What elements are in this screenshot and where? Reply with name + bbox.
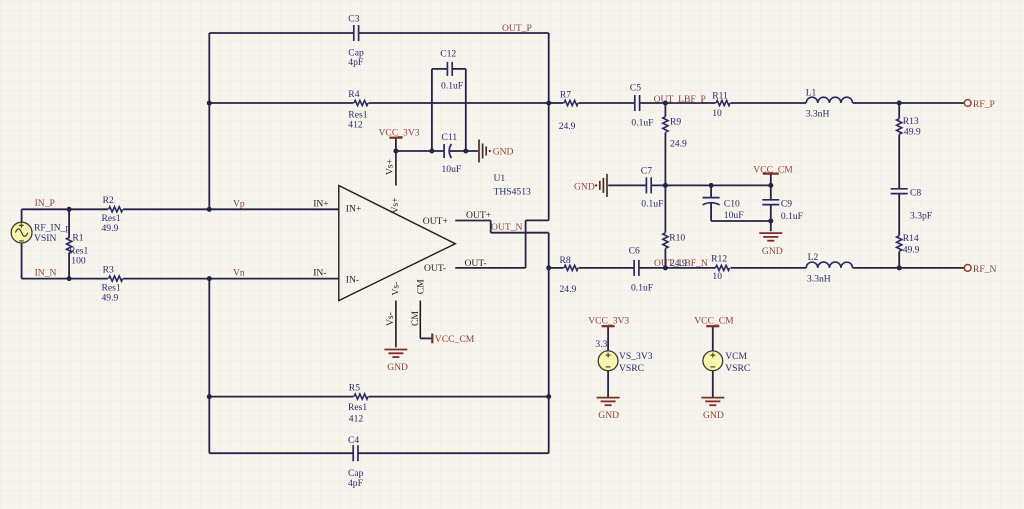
wire L2 to RF_N port: [853, 267, 965, 269]
svg-text:C5: C5: [630, 82, 641, 93]
wire source negative lead: [21, 243, 23, 279]
svg-text:R13: R13: [903, 116, 919, 127]
svg-text:412: 412: [348, 120, 363, 131]
resistor R3: [109, 276, 123, 281]
voltage source RF_IN_p VSIN: [11, 222, 32, 243]
label R5 Res1 412: [348, 383, 367, 425]
wire L1 to RF_P port: [853, 102, 965, 104]
svg-text:GND: GND: [387, 362, 408, 373]
label R1 Res1 100: [69, 233, 88, 267]
wire OUT+ crossover vertical: [490, 221, 492, 233]
svg-text:24.9: 24.9: [559, 121, 576, 132]
svg-text:R3: R3: [103, 264, 114, 275]
label R7 24.9: [559, 90, 576, 132]
svg-text:100: 100: [71, 255, 86, 266]
svg-text:IN-: IN-: [313, 268, 326, 279]
node Vs+: [393, 149, 398, 154]
power port VCC_3V3 at VS_3V3 source: [602, 325, 615, 327]
svg-text:Vs-: Vs-: [385, 312, 396, 326]
svg-text:IN+: IN+: [346, 203, 362, 214]
wire R4 feedback row left: [209, 102, 353, 104]
wire OUT+ pin stub: [455, 220, 490, 222]
capacitor C6: [634, 259, 638, 277]
svg-text:Vs+: Vs+: [390, 197, 401, 213]
label C8 3.3pF: [910, 187, 932, 221]
svg-text:U1: U1: [494, 173, 506, 184]
label C4 Cap 4pF: [348, 435, 364, 489]
svg-text:GND: GND: [762, 246, 783, 257]
label C12 0.1uF: [440, 48, 463, 91]
wire R7 to C5 to R11 segment: [579, 102, 716, 104]
voltage source VCM VSRC: [703, 351, 723, 371]
svg-text:R14: R14: [903, 233, 919, 244]
svg-text:10uF: 10uF: [724, 210, 744, 221]
power port VCC_CM at C9: [763, 173, 779, 175]
node C11 right: [463, 149, 468, 154]
inductor L1: [806, 97, 852, 103]
label R4 Res1 412: [348, 89, 367, 131]
port RF_N: [964, 265, 971, 272]
svg-text:10uF: 10uF: [442, 164, 462, 175]
capacitor C11 polarized: [444, 143, 449, 159]
svg-text:CM: CM: [416, 279, 427, 294]
svg-text:0.1uF: 0.1uF: [631, 118, 653, 129]
svg-text:49.9: 49.9: [904, 127, 921, 138]
svg-text:3.3: 3.3: [595, 339, 607, 350]
wire Vp row from R2 to IN+ pin: [123, 208, 339, 210]
node OUT_P/R7: [546, 101, 551, 106]
svg-text:R8: R8: [560, 255, 571, 266]
svg-text:10: 10: [712, 108, 722, 119]
wire OUT_N bus vertical down to C4 row: [548, 233, 550, 454]
wire C12 top row: [432, 68, 466, 70]
wire R1 upper lead: [68, 209, 70, 238]
svg-text:C10: C10: [724, 199, 740, 210]
node IN_P/R1: [67, 207, 72, 212]
resistor R14: [897, 236, 902, 252]
svg-text:24.9: 24.9: [670, 258, 687, 269]
wire IN_N row from source to R3: [22, 278, 109, 280]
svg-text:412: 412: [349, 414, 364, 425]
capacitor C9: [761, 200, 780, 204]
svg-text:RF_N: RF_N: [973, 264, 997, 275]
wire R8 to C6 to R12 segment: [579, 267, 716, 269]
wire R12 to L2 segment: [731, 267, 807, 269]
capacitor C7: [647, 176, 651, 194]
svg-text:49.9: 49.9: [102, 292, 119, 303]
wire R1 lower lead: [68, 253, 70, 279]
svg-text:VCM: VCM: [725, 351, 747, 362]
power port VCC_CM at VCM source: [706, 325, 719, 327]
wire IN_P row from source to R2: [22, 208, 109, 210]
ground GND earth at C9: [759, 233, 782, 241]
resistor R13: [897, 119, 902, 135]
node L1/R13: [897, 101, 902, 106]
label RF_IN_p VSIN: [34, 222, 70, 244]
resistor R2: [109, 207, 123, 212]
label C5 0.1uF: [630, 82, 654, 128]
node R9 top: [663, 101, 668, 106]
wire R5 feedback row left: [209, 396, 353, 398]
wire top feedback row OUT_P to C3: [209, 32, 548, 34]
svg-text:GND: GND: [574, 182, 595, 193]
label U1 designator: [494, 173, 532, 198]
svg-text:0.1uF: 0.1uF: [641, 199, 663, 210]
op-amp U1 pin Vs- bottom: [395, 301, 397, 348]
svg-text:VCC_CM: VCC_CM: [435, 334, 475, 345]
svg-text:Vs+: Vs+: [385, 159, 396, 175]
label R11 10: [712, 91, 728, 120]
label VS_3V3 VSRC 3.3: [595, 339, 652, 374]
svg-text:Res1: Res1: [348, 402, 367, 413]
inductor L2: [806, 262, 852, 268]
svg-text:OUT+: OUT+: [466, 210, 491, 221]
capacitor C4: [354, 444, 358, 462]
wire R9 R10 vertical: [664, 103, 666, 117]
op-amp U1 pin Vs+ top: [395, 151, 397, 186]
label L1 3.3nH: [806, 87, 830, 119]
resistor R8: [564, 265, 578, 270]
svg-text:GND: GND: [493, 147, 514, 158]
wire left feedback vertical lower (Vn to R5/C4): [208, 279, 210, 454]
wire OUT- pin column vertical: [525, 220, 527, 268]
svg-text:10: 10: [712, 271, 722, 282]
svg-text:R4: R4: [348, 89, 359, 100]
wire R4 feedback row right: [369, 102, 549, 104]
svg-text:R2: R2: [103, 195, 114, 206]
label R8 24.9: [560, 255, 577, 295]
svg-text:C3: C3: [348, 14, 359, 25]
svg-text:C9: C9: [781, 199, 792, 210]
wire R8 row from bus: [549, 267, 564, 269]
label L2 3.3nH: [807, 252, 831, 284]
wire GND to C7 row to VCC_CM: [608, 184, 771, 186]
node OUT_N/R8: [546, 265, 551, 270]
svg-text:CM: CM: [410, 311, 421, 326]
ground GND earth at VCM source: [701, 398, 724, 406]
wire R11 to L1 segment: [731, 102, 807, 104]
svg-text:C4: C4: [348, 435, 359, 446]
ground GND sideways at C11: [479, 140, 491, 163]
wire C9 gnd stub: [770, 221, 772, 231]
wire VCM source leads: [712, 326, 714, 351]
wire OUT_P turn to OUT- pin column: [526, 219, 549, 221]
resistor R9: [663, 117, 668, 133]
ground GND earth at Vs- pin: [384, 350, 407, 358]
wire source positive lead: [21, 209, 23, 222]
port RF_P: [964, 100, 971, 107]
wire R13 C8 R14 vertical: [898, 103, 900, 119]
voltage source VS_3V3 VSRC: [598, 351, 618, 371]
svg-text:VS_3V3: VS_3V3: [619, 351, 653, 362]
ground GND earth at VS_3V3 source: [597, 398, 620, 406]
wire C12 left leg: [431, 69, 433, 151]
wire C4 feedback row: [209, 452, 548, 454]
label C11 10uF: [442, 132, 462, 175]
svg-text:3.3nH: 3.3nH: [807, 273, 831, 284]
svg-text:OUT_LBF_P: OUT_LBF_P: [654, 94, 706, 105]
svg-text:24.9: 24.9: [560, 284, 577, 295]
node C10 top: [709, 183, 714, 188]
svg-text:Vn: Vn: [233, 268, 245, 279]
wire OUT_N crossover horizontal: [491, 232, 549, 234]
op-amp U1 triangle body: [339, 186, 456, 301]
wire C9 branch vertical: [770, 174, 772, 221]
power port VCC_CM at CM pin: [431, 334, 433, 344]
wire Vn row from R3 to IN- pin: [123, 278, 339, 280]
svg-text:4pF: 4pF: [348, 478, 363, 489]
node R5 left: [207, 394, 212, 399]
wire left feedback vertical upper (Vp to C3/R4): [208, 33, 210, 209]
svg-text:R12: R12: [711, 253, 727, 264]
svg-text:C12: C12: [440, 48, 456, 59]
svg-text:IN_P: IN_P: [35, 198, 55, 209]
label R13 49.9: [903, 116, 921, 138]
svg-text:4pF: 4pF: [348, 57, 363, 68]
label R3 Res1 49.9: [102, 264, 121, 303]
node Vp: [207, 207, 212, 212]
capacitor C3: [354, 24, 358, 42]
svg-text:OUT_P: OUT_P: [502, 23, 532, 34]
node R4 left: [207, 101, 212, 106]
resistor R1: [67, 238, 72, 254]
resistor R7: [564, 100, 578, 105]
label R14 49.9: [903, 233, 920, 256]
label R10 24.9: [669, 233, 685, 244]
svg-text:IN+: IN+: [313, 198, 329, 209]
svg-text:0.1uF: 0.1uF: [781, 211, 803, 222]
capacitor C12: [448, 61, 452, 77]
capacitor C8: [890, 189, 909, 193]
svg-text:OUT+: OUT+: [423, 216, 448, 227]
svg-text:VSRC: VSRC: [725, 363, 750, 374]
node Vn: [207, 276, 212, 281]
svg-text:L2: L2: [808, 252, 819, 263]
svg-text:R9: R9: [670, 116, 681, 127]
resistor R4: [354, 100, 368, 105]
label R12 10: [711, 253, 727, 282]
ground GND sideways at C7: [595, 174, 607, 197]
wire OUT_P bus vertical from C3 row down: [548, 33, 550, 220]
wire C11 bypass row: [396, 150, 478, 152]
label C3 Cap 4pF: [348, 14, 364, 68]
resistor R12: [716, 265, 730, 270]
wire OUT- row to column: [455, 267, 525, 269]
node OUT_LBF_N/R10: [663, 265, 668, 270]
node C9 bottom: [768, 219, 773, 224]
svg-text:R10: R10: [669, 233, 685, 244]
svg-text:0.1uF: 0.1uF: [441, 80, 463, 91]
wire R7 row from bus: [549, 102, 564, 104]
svg-text:OUT_N: OUT_N: [491, 222, 523, 233]
resistor R11: [716, 100, 730, 105]
wire C10 branch vertical: [710, 185, 712, 221]
svg-text:49.9: 49.9: [903, 245, 920, 256]
node RF_N/R14: [897, 265, 902, 270]
label R2 Res1 49.9: [102, 195, 121, 234]
capacitor C5: [635, 94, 639, 112]
svg-text:VCC_CM: VCC_CM: [753, 164, 793, 175]
svg-text:C7: C7: [641, 166, 652, 177]
svg-text:R5: R5: [349, 383, 360, 394]
power port VCC_3V3 at op-amp: [389, 137, 402, 139]
svg-text:C11: C11: [442, 132, 458, 143]
node VCC_CM/C9: [768, 183, 773, 188]
op-amp U1 pin CM bottom: [419, 301, 421, 339]
node C7/R9: [663, 183, 668, 188]
svg-text:49.9: 49.9: [102, 223, 119, 234]
wire C10 to C9 bottom row: [711, 220, 771, 222]
wire R5 feedback row right: [369, 396, 549, 398]
svg-text:R7: R7: [560, 90, 571, 101]
svg-text:IN-: IN-: [346, 275, 359, 286]
svg-text:Vp: Vp: [233, 198, 245, 209]
svg-text:RF_P: RF_P: [973, 99, 995, 110]
label C10 10uF: [724, 199, 744, 222]
svg-text:RF_IN_p: RF_IN_p: [34, 222, 70, 233]
node IN_N/R1: [67, 276, 72, 281]
svg-text:3.3nH: 3.3nH: [806, 109, 830, 120]
svg-text:C6: C6: [629, 246, 640, 257]
svg-text:VSRC: VSRC: [619, 363, 644, 374]
svg-text:VCC_3V3: VCC_3V3: [588, 316, 629, 327]
capacitor C10 polarized: [702, 198, 721, 203]
svg-text:0.1uF: 0.1uF: [631, 283, 653, 294]
svg-text:24.9: 24.9: [670, 139, 687, 150]
svg-text:THS4513: THS4513: [494, 187, 532, 198]
svg-text:R11: R11: [712, 91, 728, 102]
svg-text:VCC_3V3: VCC_3V3: [379, 128, 420, 139]
label C9 0.1uF: [781, 199, 803, 223]
svg-text:R1: R1: [72, 233, 83, 244]
node C11 left: [429, 149, 434, 154]
wire VS_3V3 source leads: [607, 326, 609, 351]
label C7 0.1uF: [641, 166, 664, 210]
svg-text:VCC_CM: VCC_CM: [694, 316, 734, 327]
wire C12 right leg: [465, 69, 467, 151]
svg-text:GND: GND: [703, 410, 724, 421]
svg-text:VSIN: VSIN: [34, 233, 56, 244]
wire CM pin to VCC_CM port: [420, 337, 431, 339]
label C6 0.1uF: [629, 246, 654, 294]
label VCM VSRC: [725, 351, 750, 374]
node R5 right: [546, 394, 551, 399]
label R9 24.9: [670, 116, 687, 149]
resistor R10: [663, 233, 668, 249]
svg-text:Vs-: Vs-: [391, 282, 402, 296]
svg-text:L1: L1: [806, 87, 817, 98]
svg-text:OUT-: OUT-: [465, 258, 487, 269]
svg-text:OUT-: OUT-: [424, 263, 446, 274]
resistor R5: [354, 394, 368, 399]
svg-text:3.3pF: 3.3pF: [910, 210, 932, 221]
svg-text:IN_N: IN_N: [35, 268, 57, 279]
wire VCC_3V3 stub to C11 row: [395, 138, 397, 151]
svg-text:C8: C8: [910, 187, 921, 198]
svg-text:GND: GND: [598, 410, 619, 421]
